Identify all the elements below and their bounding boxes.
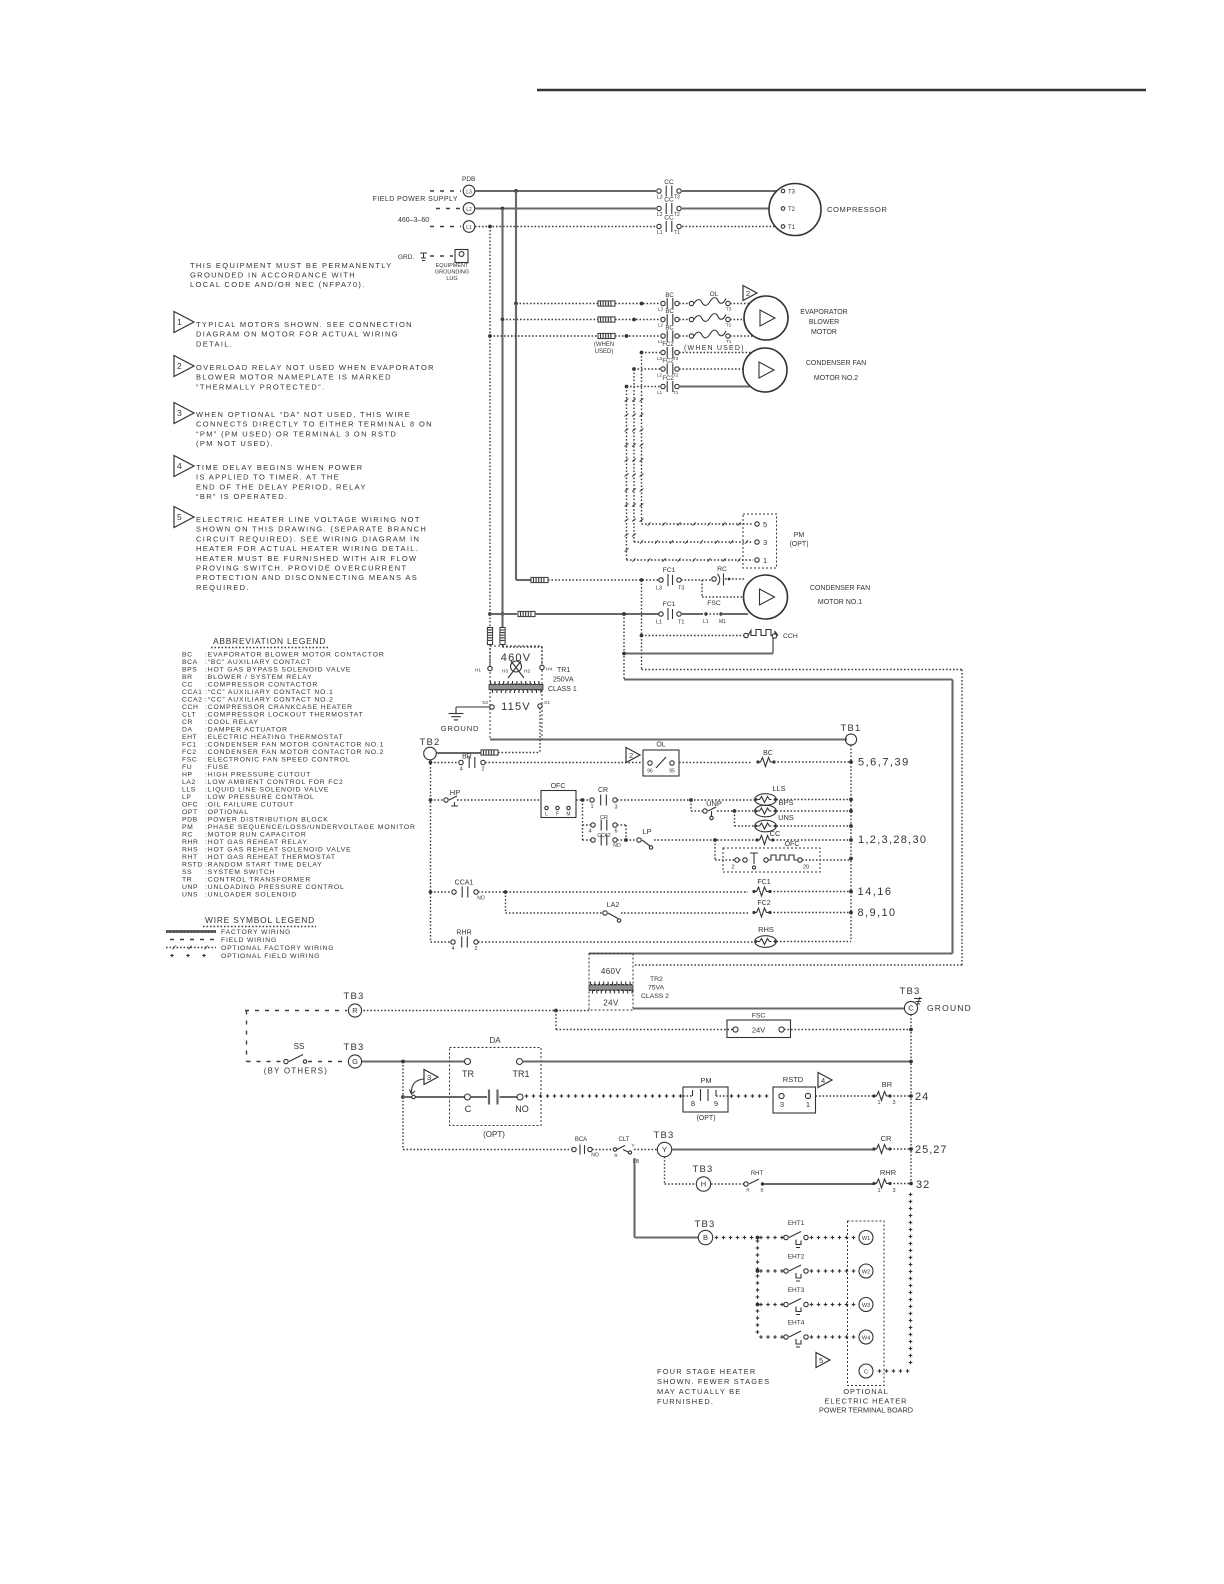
svg-text::OPTIONAL: :OPTIONAL — [205, 809, 249, 816]
field wiring loop down to SS — [246, 1011, 248, 1062]
oil failure cutout OFC contact box — [541, 783, 576, 818]
svg-text:1: 1 — [877, 1188, 880, 1194]
svg-text:CCH: CCH — [182, 704, 199, 711]
svg-text:RSTD: RSTD — [783, 1075, 804, 1084]
overload OL element L3 — [679, 298, 732, 312]
wire PM row 1 — [627, 558, 754, 562]
fuse control circuit FU — [481, 750, 498, 755]
svg-text:L1: L1 — [657, 230, 663, 236]
svg-text:IS APPLIED TO TIMER. AT THE: IS APPLIED TO TIMER. AT THE — [196, 473, 340, 482]
svg-text:H3: H3 — [502, 669, 508, 675]
note 4 text — [196, 463, 367, 501]
wire TB3-Y branch down — [665, 1157, 697, 1184]
relay coil RHR — [872, 1168, 896, 1194]
svg-text:NO: NO — [613, 843, 621, 849]
svg-text:T2: T2 — [788, 207, 796, 213]
svg-text:LLS: LLS — [772, 784, 785, 793]
wire fuse feeder L3 — [516, 303, 598, 305]
svg-text:EHT4: EHT4 — [788, 1320, 805, 1327]
wire L3 to FC1 row A — [516, 579, 531, 581]
svg-text:CLASS 1: CLASS 1 — [548, 686, 577, 693]
note 5 text — [196, 515, 427, 592]
svg-text:20: 20 — [803, 865, 809, 871]
wire PM sense vertical from L2 row — [632, 369, 636, 542]
svg-text:NO: NO — [591, 1153, 599, 1159]
svg-text:CCA1: CCA1 — [455, 880, 474, 887]
wire RHR to rail node 32 — [890, 1179, 930, 1191]
svg-text:X2: X2 — [482, 700, 488, 706]
svg-text:FACTORY WIRING: FACTORY WIRING — [221, 929, 291, 936]
wire L3 drop vertical — [514, 191, 518, 580]
abbreviation legend title — [211, 636, 330, 648]
wire 24V branch to FSC — [556, 1011, 733, 1030]
svg-text:HEATER MUST BE FURNISHED WITH: HEATER MUST BE FURNISHED WITH AIR FLOW — [196, 554, 417, 563]
wire L1 drop vertical — [488, 227, 492, 628]
svg-text:MOTOR NO.2: MOTOR NO.2 — [814, 375, 858, 382]
svg-text:PM: PM — [794, 532, 805, 539]
svg-text:OL: OL — [656, 742, 665, 749]
svg-text:CCA2: CCA2 — [182, 697, 203, 704]
label four stage heater note — [657, 1367, 770, 1406]
svg-text:BPS: BPS — [778, 798, 793, 807]
svg-text:T3: T3 — [673, 356, 679, 361]
note flag 5 heater — [816, 1353, 830, 1368]
wire L2 to CC contact — [475, 207, 656, 211]
wire CC to compressor T3 — [682, 190, 780, 192]
relay coil CR — [872, 1134, 892, 1154]
wire to FC2 L2 — [632, 367, 660, 371]
contactor coil FC1 — [752, 879, 771, 896]
wire L2 drop vertical — [501, 209, 505, 628]
svg-text:MOTOR: MOTOR — [811, 329, 837, 336]
svg-text::PHASE SEQUENCE/LOSS/UNDERVOLT: :PHASE SEQUENCE/LOSS/UNDERVOLTAGE MONITO… — [205, 824, 416, 831]
contactor CC pole L1 — [657, 215, 681, 237]
relay contact BR 4-2 — [459, 754, 485, 773]
svg-text:LP: LP — [182, 794, 192, 801]
svg-text::“CC” AUXILIARY CONTACT NO.2: :“CC” AUXILIARY CONTACT NO.2 — [205, 697, 334, 704]
svg-text:UNS: UNS — [778, 813, 794, 822]
fuse TR1 primary H4 — [500, 628, 505, 645]
svg-text:5: 5 — [819, 1356, 823, 1365]
DA terminal NO — [515, 1094, 529, 1114]
svg-text:FOUR STAGE HEATER: FOUR STAGE HEATER — [657, 1367, 756, 1376]
svg-text:Y: Y — [662, 1145, 667, 1154]
svg-text:FIELD POWER SUPPLY: FIELD POWER SUPPLY — [373, 196, 458, 203]
wire to DA terminal C — [403, 1095, 465, 1099]
svg-text:115V: 115V — [501, 701, 531, 713]
svg-text:3: 3 — [177, 408, 182, 418]
svg-text:BLOWER MOTOR NAMEPLATE IS MARK: BLOWER MOTOR NAMEPLATE IS MARKED — [196, 373, 392, 382]
contactor BC pole L3 — [658, 293, 679, 312]
condenser fan motor no.2 — [743, 348, 787, 392]
svg-text:TB3: TB3 — [899, 986, 920, 997]
wire BPS to rail — [777, 809, 853, 813]
svg-text:RSTD: RSTD — [182, 862, 203, 869]
field wiring to TB3-R — [245, 1010, 347, 1012]
svg-text:LUG: LUG — [446, 276, 457, 282]
svg-text:BC: BC — [665, 293, 674, 299]
svg-text:FC1: FC1 — [663, 567, 676, 574]
svg-text:ELECTRIC HEATER LINE VOLTAGE W: ELECTRIC HEATER LINE VOLTAGE WIRING NOT — [196, 515, 421, 524]
svg-text:3: 3 — [780, 1100, 784, 1109]
svg-text:2: 2 — [481, 767, 484, 773]
svg-text:USED): USED) — [595, 349, 614, 355]
svg-text:W3: W3 — [862, 1303, 870, 1309]
ground symbol at TR1 — [441, 714, 480, 734]
label CONDENSER FAN MOTOR NO.2 — [806, 360, 866, 382]
svg-text:TB1: TB1 — [840, 723, 861, 734]
svg-text:BCA: BCA — [575, 1137, 587, 1143]
svg-text:1,2,3,28,30: 1,2,3,28,30 — [858, 834, 927, 846]
contactor FC1 pole L1 — [656, 601, 684, 626]
wire FC1 to RC branch — [681, 579, 712, 581]
svg-text:COMPRESSOR: COMPRESSOR — [827, 205, 887, 214]
heating thermostat EHT4 — [784, 1320, 808, 1348]
svg-text:24V: 24V — [752, 1026, 765, 1035]
damper actuator DA box — [450, 1036, 542, 1139]
transformer TR1 460V primary box — [490, 646, 542, 684]
svg-text:8,9,10: 8,9,10 — [858, 907, 897, 919]
svg-text:C: C — [864, 1370, 868, 1376]
wire CCH right lead down — [624, 638, 773, 654]
svg-text:3: 3 — [614, 805, 617, 811]
svg-text:C: C — [908, 1004, 914, 1013]
wire symbol legend title — [203, 915, 316, 927]
svg-text:HP: HP — [450, 788, 460, 797]
svg-text:OPTIONAL FACTORY WIRING: OPTIONAL FACTORY WIRING — [221, 945, 334, 952]
svg-text:T2: T2 — [674, 212, 680, 218]
run capacitor RC — [712, 566, 746, 586]
wire fuse to FC1 contact row A — [548, 578, 659, 582]
svg-text:5,6,7,39: 5,6,7,39 — [858, 757, 910, 769]
contact BCA NO — [572, 1137, 599, 1159]
svg-text:EHT2: EHT2 — [788, 1254, 805, 1261]
svg-text:DA: DA — [182, 727, 193, 734]
pressure switch LP — [637, 827, 653, 849]
svg-text:(PM NOT USED).: (PM NOT USED). — [196, 439, 274, 448]
svg-text:H: H — [701, 1180, 706, 1189]
svg-text::ELECTRIC HEATING THERMOSTAT: :ELECTRIC HEATING THERMOSTAT — [205, 734, 343, 741]
terminal TB1 — [840, 723, 861, 745]
svg-text:PROTECTION AND DISCONNECTING M: PROTECTION AND DISCONNECTING MEANS AS — [196, 573, 418, 582]
svg-text:POWER TERMINAL BOARD: POWER TERMINAL BOARD — [819, 1406, 913, 1415]
node left rail row HP — [429, 798, 433, 802]
svg-text:L3: L3 — [657, 195, 663, 201]
svg-text:1: 1 — [177, 317, 182, 327]
svg-text:CONNECTS DIRECTLY TO EITHER TE: CONNECTS DIRECTLY TO EITHER TERMINAL 8 O… — [196, 420, 433, 429]
wire to EHT4 (optional field) — [759, 1335, 784, 1339]
note flag 3 with arrow — [410, 1070, 439, 1095]
abbreviation legend entries — [182, 652, 416, 899]
svg-text:TB3: TB3 — [692, 1164, 713, 1175]
svg-text:5: 5 — [177, 512, 182, 522]
TR1 winding core bar — [489, 681, 543, 693]
svg-text:EHT1: EHT1 — [788, 1220, 805, 1227]
field wiring SS to TB3-G — [308, 1061, 347, 1063]
wire OL to evaporator motor row3 — [730, 335, 753, 337]
fan speed control FSC — [681, 600, 748, 625]
svg-text:HP: HP — [182, 772, 193, 779]
contact CCA2 NO — [583, 833, 621, 849]
note flag 1 — [174, 312, 194, 333]
svg-text:CC: CC — [664, 179, 674, 186]
DA capacitor symbol — [471, 1090, 518, 1105]
svg-text:ABBREVIATION LEGEND: ABBREVIATION LEGEND — [213, 636, 326, 646]
note flag 4 — [818, 1073, 832, 1088]
svg-text:5: 5 — [763, 520, 767, 529]
equipment grounding lug — [398, 250, 469, 283]
svg-text:DA: DA — [489, 1036, 501, 1045]
svg-text::HOT GAS BYPASS SOLENOID VALVE: :HOT GAS BYPASS SOLENOID VALVE — [205, 667, 351, 674]
wire to LP — [626, 839, 637, 841]
svg-text::HOT GAS REHEAT SOLENOID VALVE: :HOT GAS REHEAT SOLENOID VALVE — [205, 847, 352, 854]
wire rail corner to RHR — [431, 941, 452, 943]
svg-text:TB3: TB3 — [694, 1219, 715, 1230]
field wiring stubs into PDB — [430, 191, 461, 227]
svg-text:T1: T1 — [788, 225, 796, 231]
svg-text:DETAIL.: DETAIL. — [196, 339, 233, 348]
wire HP to OFC — [457, 799, 541, 801]
svg-text:2: 2 — [731, 865, 734, 871]
svg-text::COMPRESSOR CONTACTOR: :COMPRESSOR CONTACTOR — [205, 682, 318, 689]
label CONDENSER FAN MOTOR NO.1 — [810, 585, 870, 606]
condenser fan motor no.1 — [744, 575, 788, 619]
contactor CC pole L2 — [657, 197, 681, 219]
svg-text::COMPRESSOR LOCKOUT THERMOSTAT: :COMPRESSOR LOCKOUT THERMOSTAT — [205, 712, 364, 719]
pressure control UNP — [703, 799, 722, 820]
svg-text:TYPICAL MOTORS SHOWN. SEE CONN: TYPICAL MOTORS SHOWN. SEE CONNECTION — [196, 320, 413, 329]
contactor FC2 pole L2 — [657, 359, 679, 378]
terminal TB3 Y — [653, 1130, 674, 1157]
svg-text:6: 6 — [614, 829, 617, 835]
svg-text::MOTOR RUN CAPACITOR: :MOTOR RUN CAPACITOR — [205, 832, 307, 839]
svg-text:BR: BR — [462, 754, 472, 761]
svg-text:(OPT): (OPT) — [789, 541, 808, 548]
TR1 primary terminals H1 H4 and phasing symbol — [475, 661, 553, 678]
svg-text:TR2: TR2 — [650, 976, 663, 983]
svg-text::BLOWER / SYSTEM RELAY: :BLOWER / SYSTEM RELAY — [205, 674, 312, 681]
svg-text:T1: T1 — [674, 230, 680, 236]
node left rail row BR — [429, 761, 433, 765]
svg-text:RHR: RHR — [182, 839, 199, 846]
svg-text:WHEN OPTIONAL “DA” NOT USED, T: WHEN OPTIONAL “DA” NOT USED, THIS WIRE — [196, 410, 411, 419]
svg-text:UNP: UNP — [706, 799, 722, 808]
contactor coil CC — [755, 829, 781, 845]
svg-text:W1: W1 — [862, 1236, 870, 1242]
DA terminal TR — [462, 1059, 474, 1080]
svg-text::COOL RELAY: :COOL RELAY — [205, 719, 259, 726]
svg-text:FC1: FC1 — [663, 601, 676, 608]
svg-text:RHS: RHS — [182, 847, 198, 854]
svg-text:FC1: FC1 — [757, 879, 770, 886]
optional electric heater terminal board box — [848, 1221, 885, 1386]
svg-text:“PM” (PM USED) OR TERMINAL 3 O: “PM” (PM USED) OR TERMINAL 3 ON RSTD — [196, 429, 397, 438]
svg-text:BR: BR — [182, 674, 193, 681]
contactor FC2 pole L1 — [657, 376, 679, 395]
wire to FC2 L3 — [640, 351, 660, 355]
transformer TR1 115V secondary box — [490, 690, 542, 740]
svg-text:TB3: TB3 — [653, 1130, 674, 1141]
transformer TR2 24V secondary box — [589, 991, 633, 1011]
wire L1 branch down to TR2 feed — [622, 614, 626, 680]
svg-text:X1: X1 — [544, 700, 550, 706]
svg-text:TIME DELAY BEGINS WHEN POWER: TIME DELAY BEGINS WHEN POWER — [196, 463, 364, 472]
terminal TB2 — [419, 737, 440, 760]
TR2 winding core bar — [589, 982, 633, 994]
wire PM to RSTD (optional field) — [730, 1094, 769, 1098]
wire OFC to CR — [576, 798, 590, 802]
wire rail to BR — [431, 762, 460, 764]
wire TB3-B to EHT1 (optional field) — [715, 1236, 784, 1240]
svg-text:R: R — [352, 1006, 358, 1015]
terminal TB3 H — [692, 1164, 713, 1191]
wire PM sense vertical from L3 row — [640, 353, 644, 525]
ladder left rail from TB2 — [430, 760, 432, 942]
note flag 2 at evaporator OL — [743, 286, 757, 301]
svg-text:TB2: TB2 — [419, 737, 440, 748]
svg-text:T3: T3 — [674, 195, 680, 201]
wire L1 to CC contact — [475, 225, 656, 229]
svg-text:L1: L1 — [657, 390, 663, 395]
svg-text:T2: T2 — [673, 373, 679, 378]
svg-text:CCA1: CCA1 — [182, 689, 203, 696]
svg-text:T3: T3 — [788, 190, 796, 196]
svg-text:WIRE SYMBOL LEGEND: WIRE SYMBOL LEGEND — [205, 915, 315, 925]
note flag 2 — [174, 356, 194, 377]
wire CLT to TB3-Y — [634, 1149, 657, 1151]
thermostat CLT — [613, 1137, 640, 1165]
svg-text:3: 3 — [427, 1073, 431, 1082]
svg-text:OPTIONAL FIELD WIRING: OPTIONAL FIELD WIRING — [221, 953, 320, 960]
svg-text:T2: T2 — [726, 323, 732, 328]
svg-text:CR: CR — [881, 1134, 892, 1143]
svg-text:Y: Y — [631, 1143, 634, 1148]
svg-text:BC: BC — [763, 750, 773, 757]
label optional electric heater terminal board — [819, 1387, 913, 1415]
wire CCH row from L3 vertical — [640, 580, 745, 637]
heater terminal W4 — [859, 1330, 873, 1344]
svg-text:1: 1 — [877, 1100, 880, 1106]
label PM (OPT) — [789, 532, 808, 548]
lower right rail from TB3-C — [910, 1015, 912, 1185]
wire TB2 to fuse — [437, 752, 482, 754]
wire fuse to FC1 contact row B — [535, 612, 659, 616]
wire branch to LA2 — [506, 892, 604, 913]
svg-text:T1: T1 — [678, 620, 684, 626]
heater terminal W2 — [859, 1264, 873, 1278]
svg-text::POWER DISTRIBUTION BLOCK: :POWER DISTRIBUTION BLOCK — [205, 817, 329, 824]
svg-text:MAY ACTUALLY BE: MAY ACTUALLY BE — [657, 1387, 741, 1396]
wire fuse to BC L1 — [615, 334, 660, 338]
svg-text:L1: L1 — [466, 225, 472, 231]
svg-text::“CC” AUXILIARY CONTACT NO.1: :“CC” AUXILIARY CONTACT NO.1 — [205, 689, 334, 696]
note flag 2 at control OL — [626, 748, 640, 763]
contactor FC2 pole L3 — [657, 342, 679, 361]
wire to FC2 L1 — [625, 385, 660, 389]
svg-text:LOCAL CODE AND/OR NEC (NFPA70): LOCAL CODE AND/OR NEC (NFPA70). — [190, 280, 366, 289]
svg-text:2: 2 — [474, 946, 477, 952]
DA terminal C — [465, 1094, 472, 1114]
label (WHEN USED) FC2 — [684, 345, 745, 352]
svg-text::DAMPER ACTUATOR: :DAMPER ACTUATOR — [205, 727, 288, 734]
svg-text:BPS: BPS — [182, 667, 197, 674]
svg-text:L1: L1 — [703, 619, 709, 625]
svg-text:14,16: 14,16 — [858, 886, 893, 898]
svg-text::LOW AMBIENT CONTROL FOR FC2: :LOW AMBIENT CONTROL FOR FC2 — [205, 779, 344, 786]
svg-text:SHOWN ON THIS DRAWING. (SEPARA: SHOWN ON THIS DRAWING. (SEPARATE BRANCH — [196, 525, 427, 534]
svg-text:3: 3 — [892, 1100, 895, 1106]
svg-text:FC2: FC2 — [182, 749, 197, 756]
svg-text:M: M — [566, 812, 570, 818]
svg-text:1: 1 — [763, 556, 767, 565]
legend optional field wiring sample — [170, 953, 320, 960]
wire TB3-C feed from TR2 — [633, 1007, 904, 1009]
svg-text:RHR: RHR — [880, 1168, 897, 1177]
phase monitor PM contact block — [683, 1076, 728, 1122]
contact CCA1 NO — [452, 880, 485, 902]
svg-text:L: L — [545, 812, 548, 818]
svg-text:8: 8 — [691, 1099, 695, 1108]
svg-text:CONDENSER FAN: CONDENSER FAN — [806, 360, 866, 367]
wire fuse to H1 — [489, 645, 491, 667]
svg-text:PROVING SWITCH. PROVIDE OVERCU: PROVING SWITCH. PROVIDE OVERCURRENT — [196, 564, 407, 573]
svg-text:UNS: UNS — [182, 892, 198, 899]
svg-text:PDB: PDB — [462, 176, 475, 183]
wire CCA1 to FC1 — [478, 890, 748, 894]
note 3 text — [196, 410, 433, 448]
solenoid RHS — [755, 925, 777, 947]
wire CC to compressor T2 — [682, 207, 780, 209]
label EVAPORATOR BLOWER MOTOR — [800, 309, 847, 336]
svg-text:RHS: RHS — [758, 925, 774, 934]
svg-text:L2: L2 — [657, 212, 663, 218]
wire CR to LLS — [617, 798, 755, 802]
contactor CC pole L3 — [657, 179, 681, 201]
svg-text::RANDOM START TIME DELAY: :RANDOM START TIME DELAY — [205, 862, 323, 869]
relay contact RHR 4-2 — [451, 930, 478, 953]
svg-text:CR: CR — [182, 719, 193, 726]
wire FC2 to motor2 row3 — [679, 385, 752, 387]
wire PM row 3 — [634, 540, 753, 544]
svg-text:UNP: UNP — [182, 884, 198, 891]
svg-text:BC: BC — [665, 309, 674, 315]
svg-text::EVAPORATOR BLOWER MOTOR CONTA: :EVAPORATOR BLOWER MOTOR CONTACTOR — [205, 652, 385, 659]
svg-text::CONDENSER FAN MOTOR CONTACTOR: :CONDENSER FAN MOTOR CONTACTOR NO.2 — [205, 749, 384, 756]
contactor aux BC — [756, 750, 775, 767]
svg-text:460V: 460V — [501, 652, 532, 664]
solenoid BPS — [755, 798, 794, 817]
svg-text:CLT: CLT — [619, 1137, 630, 1143]
thermostat RHT — [744, 1171, 764, 1193]
svg-text:(BY OTHERS): (BY OTHERS) — [264, 1067, 328, 1076]
fuse L2 evaporator circuit — [598, 317, 615, 322]
ladder right rail from TB1 — [850, 745, 852, 941]
svg-text:PM: PM — [182, 824, 193, 831]
svg-text::LIQUID LINE SOLENOID VALVE: :LIQUID LINE SOLENOID VALVE — [205, 787, 329, 794]
wire PM row 5 — [642, 522, 754, 526]
svg-text:4: 4 — [821, 1076, 825, 1085]
svg-text:24: 24 — [915, 1091, 929, 1103]
random start time delay RSTD block — [773, 1075, 816, 1113]
wire RHT to RHR coil — [764, 1183, 874, 1185]
svg-text:1: 1 — [590, 804, 593, 810]
svg-text:LLS: LLS — [182, 787, 196, 794]
svg-text:EHT3: EHT3 — [788, 1287, 805, 1294]
note 2 text — [196, 363, 435, 391]
wire L3 to CC contact — [475, 189, 656, 193]
PDB terminal L2 — [463, 203, 475, 215]
svg-text:2: 2 — [746, 289, 750, 298]
